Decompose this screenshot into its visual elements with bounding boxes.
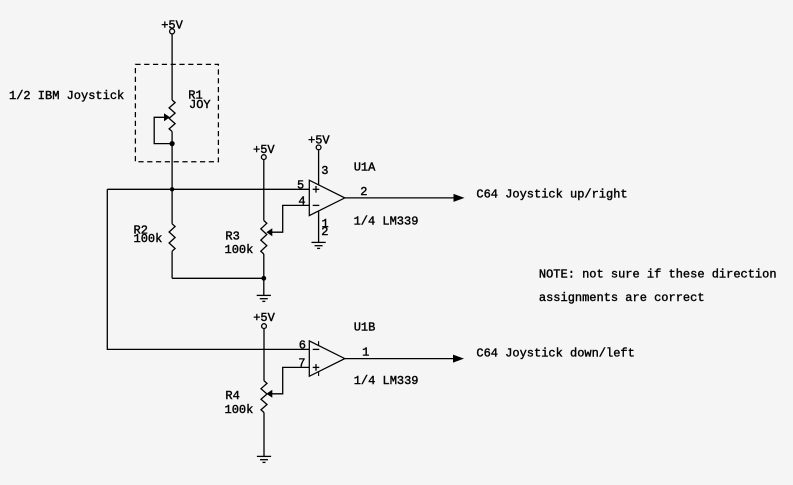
arrow U1B output: [453, 355, 464, 363]
ground GND2 (U1A pin 12): [312, 242, 326, 248]
svg-text:C64 Joystick up/right: C64 Joystick up/right: [476, 187, 627, 201]
wire +5V P2 to R3 top: [263, 160, 265, 221]
arrow U1A output: [454, 194, 465, 202]
svg-text:C64 Joystick down/left: C64 Joystick down/left: [476, 347, 634, 361]
svg-text:R4: R4: [225, 389, 239, 403]
wire node A horizontal to U1A pin5: [107, 188, 309, 190]
power +5V P2 (top of R3): [253, 143, 275, 160]
svg-text:U1A: U1A: [354, 160, 376, 174]
svg-text:100k: 100k: [225, 243, 254, 257]
resistor R2: [169, 189, 175, 278]
resistor R3 (potentiometer): [261, 221, 267, 279]
svg-text:1/4 LM339: 1/4 LM339: [354, 214, 419, 228]
wire left rail down to U1B pin6: [107, 189, 309, 349]
svg-text:R3: R3: [225, 230, 239, 244]
R1 wiper arrow: [164, 113, 170, 121]
dashed joystick enclosure box: [135, 64, 218, 161]
svg-text:5: 5: [297, 179, 304, 193]
power +5V P4 (top of R4): [253, 311, 275, 328]
resistor R4 (potentiometer): [261, 381, 267, 457]
R4 wiper arrow: [266, 390, 272, 398]
wire +5V P1 to R1 top: [171, 34, 173, 100]
power +5V P3 (U1A pin 3): [308, 133, 330, 150]
svg-text:100k: 100k: [225, 403, 254, 417]
pin 12 label: [321, 217, 328, 239]
wire +5V P4 to R4 top: [263, 329, 265, 381]
svg-text:1: 1: [362, 345, 369, 359]
wire +5V P3 to U1A pin3: [318, 150, 320, 185]
wire R3 wiper to U1A pin4: [272, 205, 309, 232]
ground GND3 (below R4): [257, 456, 271, 462]
wire U1A output pin 2: [345, 197, 455, 199]
svg-text:+5V: +5V: [253, 311, 275, 325]
wire ground node stem: [263, 278, 265, 295]
op-amp comparator U1A: [309, 180, 345, 215]
wire R1 bottom to node A: [171, 132, 173, 190]
op-amp comparator U1B: [309, 341, 345, 376]
svg-text:2: 2: [321, 225, 328, 239]
svg-text:1/2 IBM Joystick: 1/2 IBM Joystick: [9, 89, 124, 103]
svg-text:6: 6: [299, 339, 306, 353]
node: R1 wiper junction dot: [170, 141, 175, 146]
svg-text:NOTE: not sure if these direct: NOTE: not sure if these direction: [539, 268, 777, 282]
svg-text:100k: 100k: [134, 232, 163, 246]
svg-text:+5V: +5V: [161, 19, 183, 33]
R3 wiper arrow: [266, 228, 272, 236]
wire R1 wiper loop: [154, 117, 172, 143]
svg-text:U1B: U1B: [354, 320, 376, 334]
power +5V P1 (top of R1): [161, 19, 183, 34]
resistor R1 (joystick potentiometer): [169, 100, 175, 132]
svg-text:2: 2: [360, 185, 367, 199]
svg-text:7: 7: [298, 356, 305, 370]
svg-text:3: 3: [321, 164, 328, 178]
svg-text:1/4 LM339: 1/4 LM339: [354, 374, 419, 388]
svg-text:assignments are correct: assignments are correct: [539, 291, 705, 305]
wire U1A pin12 to ground: [318, 211, 320, 243]
node A junction dot: [170, 187, 174, 191]
wire U1B output pin 1: [345, 358, 454, 360]
svg-text:JOY: JOY: [189, 98, 211, 112]
ground GND1 (below R2/R3): [257, 295, 271, 301]
svg-text:4: 4: [298, 195, 305, 209]
wire R4 wiper to U1B pin7: [272, 367, 309, 393]
node: ground junction dot: [261, 276, 266, 281]
wire R2 bottom to ground node: [172, 277, 264, 279]
